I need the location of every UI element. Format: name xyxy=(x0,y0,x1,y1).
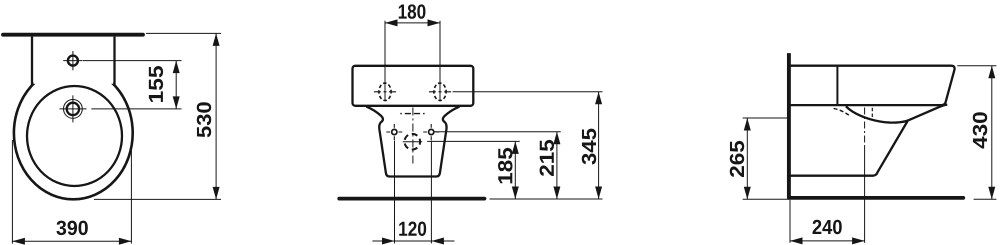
dim 155 arrow up xyxy=(173,61,180,74)
dim 155 arrow down xyxy=(173,96,180,109)
small hole right cross dashes xyxy=(423,131,439,133)
tank side left xyxy=(31,37,33,86)
dim 240 ext line right (drain axis) xyxy=(864,146,866,243)
dim 240 line xyxy=(790,240,865,242)
dim 265 text xyxy=(730,141,744,177)
dim 530 top leader xyxy=(146,32,221,34)
fixing hole right (dashed ellipse) xyxy=(434,83,446,100)
dim 180 ext line left xyxy=(384,21,386,101)
leader to 185 xyxy=(427,140,520,142)
dim 180 line xyxy=(385,22,440,24)
dim 215 arrow up xyxy=(553,132,560,145)
dim 430 line xyxy=(991,66,993,200)
dim 345 arrow up xyxy=(595,92,602,105)
dim 390 arrow left xyxy=(12,238,25,245)
dim 180 text xyxy=(399,4,426,18)
drain hole crosshair horizontal xyxy=(403,141,422,143)
dim 265 arrow down xyxy=(744,187,751,200)
hidden water line dashes xyxy=(400,113,424,115)
dim 180 arrow right xyxy=(428,19,441,26)
fixing hole left cross dashes xyxy=(374,91,396,93)
dim 265 leader xyxy=(743,117,790,119)
dim 120 arrow left (outside) xyxy=(382,238,395,245)
tap deck divider xyxy=(836,66,838,105)
wall bar xyxy=(787,53,791,198)
small hole left circle xyxy=(392,129,397,134)
dim 185 arrow down xyxy=(512,187,519,200)
dim 530 line xyxy=(215,33,217,199)
bowl outer ellipse xyxy=(14,67,133,200)
drain inner circle xyxy=(67,103,79,115)
drain crosshair xyxy=(60,95,87,122)
dim 215 arrow down xyxy=(553,187,560,200)
wall bar xyxy=(3,33,143,37)
floor bar right view xyxy=(789,196,963,200)
leader to 215 xyxy=(435,131,561,133)
drain centerline xyxy=(864,108,866,147)
deck outline xyxy=(791,66,955,105)
dim 390 ext line left xyxy=(11,140,13,244)
bowl inner ellipse xyxy=(27,86,122,186)
dim 530 arrow up xyxy=(213,33,220,46)
vertical centerline xyxy=(412,108,414,167)
hidden dashed vertical xyxy=(871,108,873,117)
dim 265 arrow up xyxy=(744,118,751,131)
dim 180 ext line right xyxy=(439,21,441,101)
dim 265 floor ref xyxy=(743,198,789,200)
floor reference line xyxy=(490,198,603,200)
dim 185 line xyxy=(514,141,516,199)
pedestal bottom and back slant xyxy=(791,121,908,176)
tap hole circle xyxy=(68,56,78,66)
dim 120 arrow right (outside) xyxy=(431,238,444,245)
dim 180 arrow left xyxy=(385,19,398,26)
dim 390 ext line right xyxy=(130,147,132,244)
dim 390 arrow right xyxy=(119,238,131,245)
drain hole dashed circle xyxy=(405,134,421,150)
tap hole crosshair ticks xyxy=(63,51,82,70)
small hole left cross dashes xyxy=(386,131,402,133)
dim 120 line xyxy=(372,240,454,242)
dim 345 line xyxy=(598,92,600,199)
dim 430 arrow down xyxy=(988,187,995,200)
dim 155 line xyxy=(175,61,177,109)
dim 185 arrow up xyxy=(512,141,519,154)
dim 185 text xyxy=(498,148,512,183)
dim 240 text xyxy=(813,220,842,234)
tank side right xyxy=(113,37,115,86)
fixing hole left (dashed ellipse) xyxy=(379,83,391,100)
dim 530 arrow down xyxy=(213,187,220,200)
dim 430 floor ref xyxy=(974,198,997,200)
dim 120 ext line left xyxy=(394,141,396,244)
dim 530 text xyxy=(197,102,211,137)
dim 155 text xyxy=(149,66,163,102)
dim 345 text xyxy=(582,129,596,165)
floor bar middle xyxy=(339,197,484,201)
dim 215 line xyxy=(556,132,558,199)
dim 240 ext line left (below floor) xyxy=(789,200,791,243)
dim 430 text xyxy=(973,112,987,148)
dim 120 text xyxy=(399,222,426,236)
deck rectangle xyxy=(353,66,474,106)
bowl underside bulge xyxy=(846,105,947,123)
dim 240 arrow left xyxy=(790,237,803,244)
dim 430 arrow up xyxy=(988,66,995,79)
small hole right circle xyxy=(429,129,434,134)
cover over hidden top arc xyxy=(33,37,113,84)
leader to 345 xyxy=(453,91,603,93)
drain outer circle xyxy=(64,100,83,119)
bowl and pedestal outline xyxy=(366,107,459,177)
dim 120 ext line right xyxy=(430,141,432,244)
dim 390 text xyxy=(56,221,87,235)
drain leader xyxy=(91,108,181,110)
tap hole leader xyxy=(83,60,182,62)
hidden inner bowl dashed arc xyxy=(834,108,851,116)
dim 390 line xyxy=(12,240,131,242)
dim 240 arrow right xyxy=(852,237,865,244)
dim 215 text xyxy=(540,140,554,176)
dim 530 bottom leader xyxy=(94,198,221,200)
dim 430 top leader xyxy=(957,65,996,67)
dim 265 line xyxy=(746,118,748,199)
fixing hole right cross dashes xyxy=(429,91,451,93)
dim 345 arrow down xyxy=(595,187,602,200)
